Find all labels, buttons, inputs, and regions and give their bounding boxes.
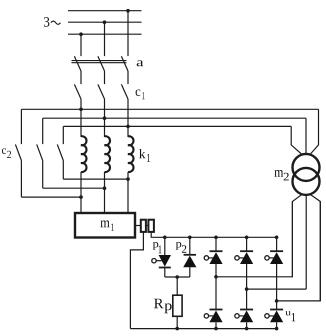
tilde of 3~ (51, 21, 61, 24)
junction dot bottombus/Rp (175, 327, 179, 331)
column 2 top thyristor anode wire (246, 264, 248, 289)
contactor c1 pole 2 blade (98, 84, 105, 99)
column 2 top thyristor gate circle (235, 256, 239, 260)
column 3 bottom thyristor gate lead (269, 315, 273, 317)
label 3~ (three-phase supply) (44, 17, 50, 27)
label k1 (139, 149, 150, 162)
label c2 (2, 148, 11, 158)
column 3 top thyristor cathode bar (270, 250, 283, 252)
label m2 (274, 170, 288, 180)
column 3 bottom thyristor cathode bar (270, 309, 283, 311)
column 3 top thyristor cathode wire (276, 237, 278, 251)
column 3 bottom thyristor anode wire (276, 322, 278, 328)
c2 loop 1 upper wire (20, 109, 22, 144)
wire from brush2 down to rectifier top bus (151, 232, 165, 237)
contactor a pole 3 blade (121, 56, 128, 71)
junction dot c2 loop2 / v2 (103, 186, 107, 190)
column 2 bottom thyristor triangle (240, 311, 253, 323)
junction dot L3/v1 (79, 32, 83, 36)
c2 pole 2 blade (37, 144, 43, 160)
junction dot tap3/v3 (126, 125, 130, 129)
label u1 (285, 311, 295, 321)
tap line phase 2 (43, 117, 306, 119)
resistor Rp body (173, 295, 182, 316)
junction dot bus/p1 (163, 236, 167, 240)
junction dot bus/p2 (188, 236, 192, 240)
junction dot bus/column1 (214, 236, 218, 240)
junction dot bottombus/col2 (245, 327, 249, 331)
column 2 bottom thyristor anode wire (246, 322, 248, 328)
column 2 top thyristor triangle (240, 252, 253, 264)
column 3 bottom thyristor gate circle (265, 314, 269, 318)
wire v2 between a and c1 (104, 71, 106, 84)
column 2 top thyristor cathode bar (240, 250, 253, 252)
rectifier top bus (165, 236, 277, 238)
junction dot col1 mid (214, 275, 218, 279)
column 2 bottom thyristor gate circle (235, 314, 239, 318)
label m1 (100, 220, 114, 230)
wire from brush1 down-left-down to bottom bus (130, 232, 143, 329)
reactor coil k1 phase 3 (128, 136, 133, 172)
transformer m2 secondary circle (293, 168, 320, 195)
wire v3 from c1 to coil (127, 99, 129, 137)
junction dot L2/v2 (103, 20, 107, 24)
column 3 top thyristor gate circle (265, 256, 269, 260)
column 1 bottom thyristor anode wire (215, 322, 217, 328)
m2 primary lead phase1 (outer right) (310, 109, 319, 154)
label a (137, 60, 144, 66)
column 1 bottom thyristor triangle (209, 311, 222, 323)
junction dot bus/column3 (275, 236, 279, 240)
column 1 top thyristor gate circle (204, 256, 208, 260)
bus line L2 (middle) (68, 21, 142, 23)
junction dot col3 mid (275, 299, 279, 303)
label p1 (153, 242, 162, 253)
brush block 1 (141, 220, 146, 232)
junction dot bottombus/col3 (275, 327, 279, 331)
column 2 mid tap wire to right (247, 288, 307, 290)
bottom bus (130, 328, 276, 330)
wire v1 from c1 to coil (80, 99, 82, 137)
motor m1 box (75, 213, 135, 238)
reactor coil k1 phase 1 (81, 136, 86, 172)
column 3 top thyristor anode wire (276, 264, 278, 301)
junction dot bus/column2 (245, 236, 249, 240)
wire v2 coil to motor (104, 172, 106, 213)
column 2 bottom thyristor cathode bar (240, 309, 253, 311)
junction dot p1p2/Rp (175, 275, 179, 279)
m2 secondary lead middle (305, 195, 307, 289)
column 1 bottom thyristor gate lead (209, 315, 213, 317)
c2 loop 2 lower wire (42, 161, 44, 189)
column 1 bottom thyristor gate circle (204, 314, 208, 318)
tap line phase 3 (63, 125, 291, 127)
c2 loop 1 lower wire (20, 161, 22, 198)
wire v2 from c1 to coil (104, 99, 106, 137)
column 3 top thyristor triangle (270, 252, 283, 264)
junction dot tap2/v2 (103, 116, 107, 120)
c2 pole 3 blade (57, 144, 63, 160)
m2 secondary lead left (292, 194, 302, 276)
thyristor p1 triangle (159, 255, 171, 267)
junction dot bottombus/col1 (214, 327, 218, 331)
c2 loop 3 bottom wire (63, 178, 128, 180)
wire v1 drop to switch a (80, 34, 82, 56)
column 3 mid tap wire to right (277, 202, 321, 301)
bus line L3 (bottom) (68, 33, 142, 35)
c2 loop 1 bottom wire (21, 196, 81, 198)
wire v3 coil to motor (127, 172, 129, 213)
contactor c1 pole 3 blade (121, 84, 128, 99)
label Rp (154, 299, 172, 314)
link between brush blocks (146, 225, 149, 227)
c2 loop 2 bottom wire (43, 187, 105, 189)
wire v3 between a and c1 (127, 71, 129, 84)
diode p2 anode wire (189, 237, 191, 255)
thyristor p1 anode wire (164, 237, 166, 255)
column 1 top thyristor cathode wire (215, 237, 217, 251)
contactor a linkage (double line) (72, 60, 127, 62)
thyristor p1 cathode bar (159, 267, 171, 269)
wire m1 to brush block 1 (135, 225, 141, 227)
transformer m2 primary circle (293, 154, 320, 181)
column 2 bottom thyristor gate lead (239, 315, 243, 317)
column 1 top thyristor cathode bar (210, 250, 223, 252)
contactor a pole 1 blade (74, 56, 81, 71)
contactor a pole 2 blade (98, 56, 105, 71)
wire v2 drop to switch a (104, 22, 106, 56)
column 3 bottom thyristor triangle (270, 311, 283, 323)
thyristor p1 cathode wire (164, 268, 166, 278)
label p2 (176, 242, 187, 253)
wire down to Rp (176, 277, 178, 295)
m2 primary lead phase3 (outer left) (291, 126, 302, 154)
column 3 top thyristor gate lead (269, 257, 273, 259)
c2 loop 3 upper wire (62, 126, 64, 144)
bus line L1 (top) (68, 10, 142, 12)
wire Rp to bottom bus (176, 316, 178, 328)
wire v3 drop to switch a (127, 11, 129, 56)
wire joining p1 and p2 bottoms (165, 276, 190, 278)
diode p2 lower wire (189, 267, 191, 277)
contactor c1 pole 1 blade (74, 84, 81, 99)
column 1 top thyristor gate lead (209, 257, 213, 259)
diode p2 cathode bar (184, 254, 196, 256)
column 2 top thyristor gate lead (239, 257, 243, 259)
column 3 lower wire (276, 301, 278, 310)
reactor coil k1 phase 2 (105, 136, 110, 172)
column 1 top thyristor anode wire (215, 264, 217, 277)
tap line phase 1 (to c2 loop and m2 primary) (21, 108, 318, 110)
column 2 lower wire (246, 289, 248, 309)
wire v1 between a and c1 (80, 71, 82, 84)
column 1 top thyristor triangle (209, 252, 222, 264)
column 1 bottom thyristor cathode bar (210, 309, 223, 311)
c2 loop 3 lower wire (62, 161, 64, 180)
thyristor p1 gate lead (156, 260, 162, 262)
junction dot c2 loop1 / v1 (79, 195, 83, 199)
thyristor p1 gate circle (152, 259, 156, 263)
m2 primary lead phase2 (middle) (305, 118, 307, 154)
junction dot L1/v3 (126, 9, 130, 13)
column 2 top thyristor cathode wire (246, 237, 248, 251)
label c1 (136, 90, 145, 100)
junction dot col2 mid (245, 287, 249, 291)
c2 loop 2 upper wire (42, 118, 44, 144)
brush block 2 (148, 220, 154, 232)
m2 secondary lead right (310, 194, 320, 301)
c2 pole 1 blade (15, 144, 21, 160)
junction dot tap1/v1 (79, 108, 83, 112)
diode p2 triangle (183, 256, 196, 268)
column 1 lower wire (215, 277, 217, 310)
junction dot c2 loop3 / v3 (126, 177, 130, 181)
column 1 mid tap wire to right (216, 202, 292, 277)
wire v1 coil to motor (80, 172, 82, 213)
